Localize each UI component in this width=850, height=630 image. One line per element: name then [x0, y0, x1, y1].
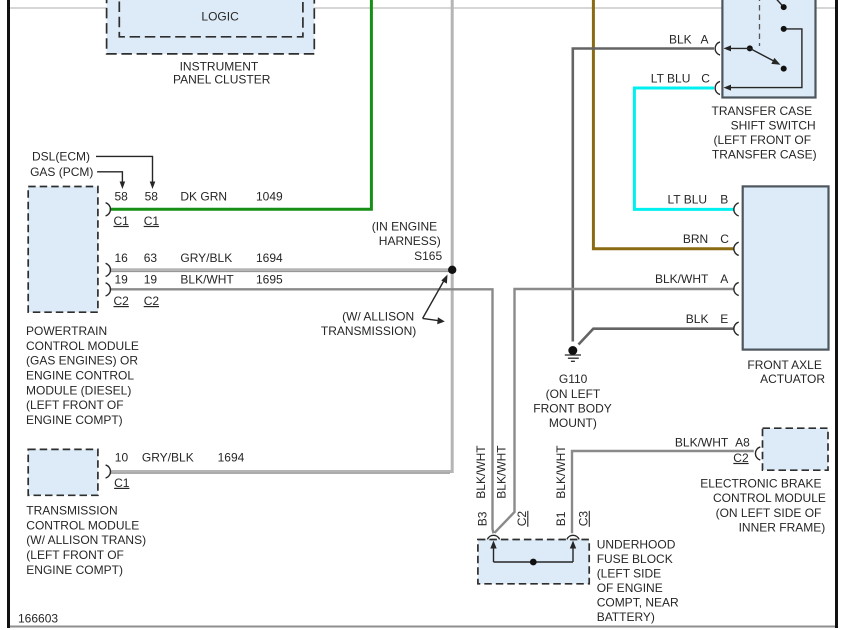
svg-text:ENGINE CONTROL: ENGINE CONTROL	[26, 369, 134, 383]
svg-text:BLK/WHT: BLK/WHT	[180, 272, 234, 286]
svg-text:SHIFT SWITCH: SHIFT SWITCH	[731, 118, 816, 132]
svg-text:INNER FRAME): INNER FRAME)	[739, 521, 826, 535]
TCM name label	[26, 504, 146, 577]
fuse block internal arrow at left pin	[490, 541, 496, 563]
wire label GRY/BLK 1694 (TCM)	[142, 451, 245, 465]
splice S165 junction dot	[448, 266, 456, 274]
IPC name label	[173, 60, 271, 87]
transfer case shift switch S1 (component box)	[722, 0, 815, 98]
svg-text:1694: 1694	[256, 251, 283, 265]
svg-text:(W/ ALLISON TRANS): (W/ ALLISON TRANS)	[26, 533, 146, 547]
svg-text:BLK/WHT: BLK/WHT	[655, 272, 709, 286]
vertical connector label C3 (underlined)	[577, 511, 591, 527]
TCM pin connector arc	[106, 465, 111, 478]
wire GRY/BLK 1694 (splice S165 down to TCM pin 10)	[110, 0, 452, 473]
svg-text:1049: 1049	[256, 189, 283, 203]
wire BLK (shift switch pin A down to ground G110)	[573, 49, 714, 342]
svg-text:UNDERHOOD: UNDERHOOD	[597, 537, 676, 551]
wire BLK/WHT (actuator pin A to fuse block C2)	[495, 289, 735, 533]
svg-text:OF ENGINE: OF ENGINE	[597, 581, 663, 595]
powertrain control module U-PCM (dashed module box)	[28, 187, 98, 313]
wire BRN (from top edge to actuator pin C)	[593, 0, 734, 249]
svg-text:ELECTRONIC BRAKE: ELECTRONIC BRAKE	[700, 476, 821, 490]
actuator pin E connector arc	[734, 322, 739, 335]
label BLK E (actuator pin E)	[686, 312, 729, 326]
svg-text:BLK: BLK	[686, 312, 709, 326]
svg-text:GAS (PCM): GAS (PCM)	[30, 165, 93, 179]
PCM name label	[26, 324, 139, 427]
shift switch name label	[712, 104, 817, 161]
svg-text:58: 58	[115, 189, 129, 203]
label BLK/WHT A (actuator pin A)	[655, 272, 728, 286]
EBCM pin A8 connector arc	[755, 447, 760, 460]
wire BLK E (actuator pin E to ground G110)	[579, 329, 735, 345]
svg-text:CONTROL MODULE: CONTROL MODULE	[26, 339, 139, 353]
svg-text:LT BLU: LT BLU	[668, 193, 708, 207]
fuse block internal junction dot	[530, 559, 537, 566]
shift switch pin A connector arc	[715, 42, 720, 55]
wire BLK/WHT 1695 (PCM pins 19/19 to fuse block B3)	[110, 289, 494, 533]
svg-text:DK GRN: DK GRN	[180, 189, 227, 203]
TCM pin 10 label	[115, 451, 129, 465]
svg-text:BLK/WHT: BLK/WHT	[675, 435, 729, 449]
svg-text:C: C	[720, 232, 729, 246]
svg-text:BRN: BRN	[683, 232, 708, 246]
shift switch wiper arm arrow	[750, 48, 787, 71]
instrument panel cluster U-IPC (dashed module box)	[107, 0, 315, 54]
svg-text:63: 63	[144, 251, 158, 265]
fuse block pin B1/C3 connector arc	[567, 535, 579, 539]
svg-text:58: 58	[145, 189, 159, 203]
actuator name label	[747, 358, 825, 386]
svg-text:BLK/WHT: BLK/WHT	[554, 445, 568, 499]
svg-text:10: 10	[115, 451, 129, 465]
ground G110 label	[533, 372, 611, 430]
transmission control module U-TCM (dashed module box)	[28, 449, 98, 495]
svg-text:(LEFT SIDE: (LEFT SIDE	[597, 567, 661, 581]
svg-text:BLK/WHT: BLK/WHT	[474, 445, 488, 499]
svg-text:(LEFT FRONT OF: (LEFT FRONT OF	[714, 133, 812, 147]
svg-text:LOGIC: LOGIC	[201, 10, 239, 24]
vertical wire label BLK/WHT (B3 wire)	[474, 445, 488, 499]
svg-text:16: 16	[115, 251, 129, 265]
shift switch pin C connector arc	[715, 81, 720, 94]
PCM pin C1 connector arc	[106, 203, 111, 216]
PCM pin 58/58 labels	[115, 189, 159, 203]
svg-text:1695: 1695	[256, 272, 283, 286]
fuse block internal arrow at right pin	[570, 541, 576, 563]
svg-text:C1: C1	[114, 214, 130, 228]
svg-text:BLK: BLK	[669, 32, 692, 46]
label LT BLU B (actuator pin B)	[668, 193, 729, 207]
shift switch contact and wire to pin C	[724, 26, 802, 91]
svg-text:19: 19	[144, 272, 158, 286]
wire label BLK/WHT 1695	[180, 272, 283, 286]
svg-text:(LEFT FRONT OF: (LEFT FRONT OF	[26, 398, 124, 412]
svg-text:CONTROL MODULE: CONTROL MODULE	[26, 518, 139, 532]
label BRN C (actuator pin C)	[683, 232, 729, 246]
svg-text:TRANSFER CASE): TRANSFER CASE)	[712, 147, 817, 161]
svg-text:PANEL CLUSTER: PANEL CLUSTER	[173, 72, 271, 86]
svg-text:POWERTRAIN: POWERTRAIN	[26, 324, 107, 338]
svg-text:C2: C2	[114, 294, 130, 308]
vertical wire label BLK/WHT (B1 wire)	[554, 445, 568, 499]
svg-text:BATTERY): BATTERY)	[597, 610, 655, 624]
svg-text:ENGINE COMPT): ENGINE COMPT)	[26, 413, 123, 427]
PCM pin GRY/BLK connector arc	[106, 263, 111, 276]
EBCM connector C2 label	[733, 451, 749, 465]
wire DK GRN 1049 (PCM pin 58 to IPC)	[110, 0, 372, 209]
actuator pin B connector arc	[734, 203, 739, 216]
wire GRY/BLK 1694 (PCM pins 16/63 to splice S165)	[110, 270, 449, 272]
svg-text:(ON LEFT SIDE OF: (ON LEFT SIDE OF	[716, 506, 822, 520]
svg-text:E: E	[720, 312, 728, 326]
label LT BLU C (switch pin C)	[651, 71, 710, 85]
svg-text:GRY/BLK: GRY/BLK	[142, 451, 194, 465]
svg-text:(GAS ENGINES) OR: (GAS ENGINES) OR	[26, 354, 138, 368]
svg-text:(ON LEFT: (ON LEFT	[546, 387, 601, 401]
actuator pin C connector arc	[734, 242, 739, 255]
svg-text:166603: 166603	[18, 611, 58, 625]
PCM pin 19/19 labels	[115, 272, 158, 286]
W/ALLISON TRANSMISSION callout label	[321, 309, 416, 338]
electronic brake control module U-EBCM (dashed box)	[763, 428, 829, 470]
PCM pin 16/63 labels	[115, 251, 158, 265]
svg-text:A: A	[701, 32, 709, 46]
label BLK/WHT A8 (EBCM pin)	[675, 435, 750, 449]
svg-text:C: C	[701, 71, 710, 85]
underhood fuse block FB1 (dashed box)	[478, 540, 589, 584]
svg-text:COMPT, NEAR: COMPT, NEAR	[597, 596, 679, 610]
svg-text:MODULE (DIESEL): MODULE (DIESEL)	[26, 383, 131, 397]
svg-text:GRY/BLK: GRY/BLK	[180, 251, 232, 265]
wire LT BLU (shift switch pin C to actuator pin B)	[634, 88, 734, 209]
svg-text:TRANSFER CASE: TRANSFER CASE	[712, 104, 813, 118]
svg-text:G110: G110	[559, 372, 588, 386]
callout arrow to TCM branch wire (right)	[423, 317, 445, 324]
vertical connector label C2 (underlined)	[515, 511, 529, 527]
PCM connector C2 labels	[114, 294, 160, 308]
svg-text:S165: S165	[414, 249, 442, 263]
svg-text:A: A	[720, 272, 728, 286]
splice S165 name label	[372, 219, 443, 262]
wire BLK/WHT A8 (fuse block B1/C3 to EBCM A8)	[572, 451, 754, 533]
svg-text:C2: C2	[515, 511, 529, 527]
svg-text:FRONT BODY: FRONT BODY	[533, 402, 611, 416]
svg-text:ACTUATOR: ACTUATOR	[760, 372, 825, 386]
fuse block name label	[597, 537, 679, 624]
DSL(ECM) callout arrow	[32, 150, 155, 189]
svg-text:ENGINE COMPT): ENGINE COMPT)	[26, 563, 123, 577]
svg-text:C2: C2	[144, 294, 160, 308]
svg-text:DSL(ECM): DSL(ECM)	[32, 150, 90, 164]
vertical wire label BLK/WHT (C2 wire)	[495, 445, 509, 499]
svg-text:TRANSMISSION: TRANSMISSION	[26, 504, 117, 518]
svg-text:CONTROL MODULE: CONTROL MODULE	[713, 491, 826, 505]
front axle actuator M1 (component box)	[743, 186, 829, 349]
svg-text:BLK/WHT: BLK/WHT	[495, 445, 509, 499]
vertical pin label B1	[554, 511, 568, 526]
svg-text:C3: C3	[577, 511, 591, 527]
svg-text:FRONT AXLE: FRONT AXLE	[747, 358, 821, 372]
svg-text:1694: 1694	[218, 451, 245, 465]
svg-text:19: 19	[115, 272, 129, 286]
PCM pin BLK/WHT connector arc	[106, 283, 111, 296]
svg-text:C1: C1	[144, 214, 160, 228]
fuse block internal bus wire	[494, 561, 574, 563]
svg-text:C2: C2	[733, 451, 749, 465]
actuator pin A connector arc	[734, 282, 739, 295]
svg-text:HARNESS): HARNESS)	[379, 234, 441, 248]
svg-text:MOUNT): MOUNT)	[549, 416, 597, 430]
svg-text:FUSE BLOCK: FUSE BLOCK	[597, 552, 673, 566]
shift switch wiper contact and arrow to pin A	[724, 45, 753, 51]
svg-text:(LEFT FRONT OF: (LEFT FRONT OF	[26, 548, 124, 562]
fuse block pin B3/C2 connector arc	[487, 535, 499, 539]
svg-text:C1: C1	[114, 476, 130, 490]
wire label DK GRN 1049	[180, 189, 283, 203]
TCM connector C1 label	[114, 476, 130, 490]
svg-text:B3: B3	[476, 511, 490, 526]
GAS (PCM) callout arrow	[30, 165, 125, 189]
IPC logic block	[119, 0, 303, 37]
wire label GRY/BLK 1694	[180, 251, 283, 265]
ground G110 symbol	[565, 346, 581, 361]
shift switch internal dashed line	[759, 0, 761, 46]
callout arrow to splice wire (up)	[423, 275, 448, 319]
PCM connector C1 labels	[114, 214, 160, 228]
vertical pin label B3	[476, 511, 490, 526]
svg-text:LT BLU: LT BLU	[651, 71, 691, 85]
svg-text:B1: B1	[554, 511, 568, 526]
svg-text:(IN ENGINE: (IN ENGINE	[372, 219, 437, 233]
drawing number label	[18, 611, 58, 625]
svg-text:(W/ ALLISON: (W/ ALLISON	[342, 309, 414, 323]
label BLK A (switch pin A)	[669, 32, 709, 46]
svg-text:A8: A8	[735, 435, 750, 449]
svg-text:TRANSMISSION): TRANSMISSION)	[321, 324, 416, 338]
svg-text:B: B	[720, 193, 728, 207]
shift switch contact (top, with stub)	[775, 0, 787, 10]
EBCM name label	[700, 476, 826, 534]
